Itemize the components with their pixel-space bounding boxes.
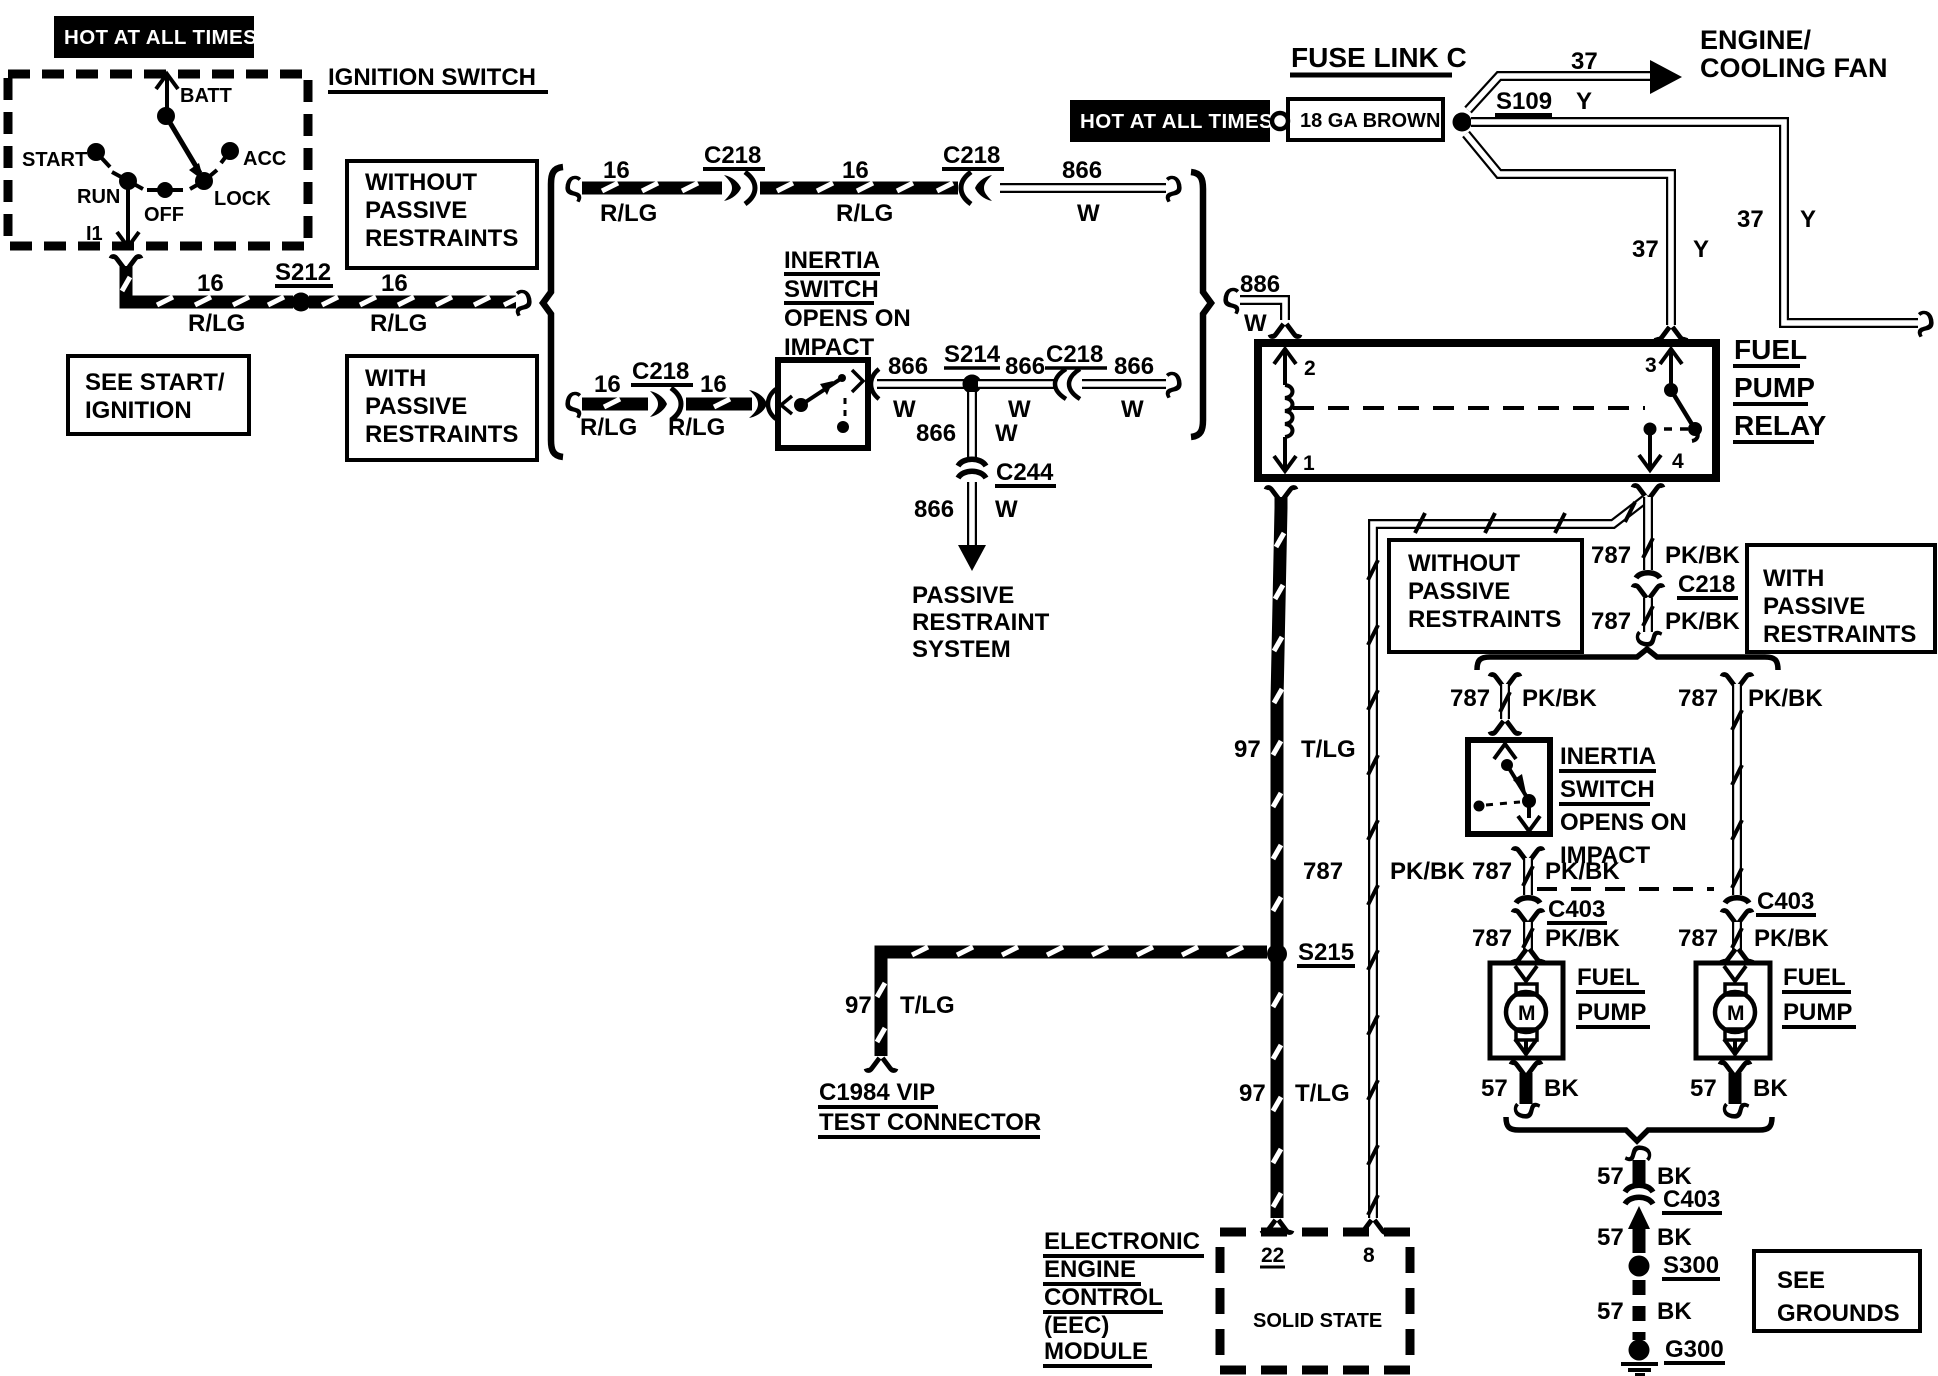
- svg-text:IGNITION: IGNITION: [85, 397, 192, 424]
- wire end hook at right edge: [1916, 297, 1935, 338]
- svg-text:S212: S212: [275, 259, 331, 286]
- fuel pump motor (right): [1715, 966, 1755, 1054]
- svg-text:R/LG: R/LG: [668, 414, 725, 441]
- svg-text:M: M: [1518, 1002, 1536, 1025]
- svg-text:RELAY: RELAY: [1734, 410, 1827, 441]
- svg-text:1: 1: [1303, 452, 1315, 475]
- wire 16 R/LG from S212 to brace: [309, 297, 520, 305]
- svg-text:4: 4: [1672, 450, 1684, 473]
- 18 GA BROWN fuse link box: [1288, 99, 1443, 140]
- wire 57 BK (left): [1520, 1073, 1533, 1104]
- svg-text:G300: G300: [1665, 1336, 1724, 1363]
- connector fork at C1984: [866, 1058, 896, 1071]
- svg-text:C218: C218: [1046, 341, 1103, 368]
- ground symbol: [1621, 1364, 1658, 1375]
- hook below left 57 wire: [1500, 1101, 1541, 1120]
- connector C218 (bottom 866): [1045, 341, 1107, 399]
- svg-text:Y: Y: [1576, 88, 1592, 115]
- fork below right pump: [1720, 1062, 1750, 1075]
- svg-text:BATT: BATT: [180, 85, 232, 107]
- svg-text:ENGINE/: ENGINE/: [1700, 25, 1812, 55]
- svg-text:16: 16: [842, 157, 869, 184]
- svg-text:PASSIVE: PASSIVE: [365, 197, 467, 224]
- svg-text:16: 16: [603, 157, 630, 184]
- svg-text:M: M: [1727, 1002, 1745, 1025]
- svg-text:PK/BK: PK/BK: [1748, 685, 1823, 712]
- svg-text:RESTRAINT: RESTRAINT: [912, 609, 1050, 636]
- inertia switch label (left): [784, 247, 911, 361]
- connector into inertia switch: [749, 389, 776, 419]
- EEC module dashed box: [1220, 1232, 1410, 1370]
- connector fork at ignition output: [111, 256, 141, 269]
- svg-text:BK: BK: [1544, 1075, 1579, 1102]
- without passive restraints note box (left): [347, 161, 537, 268]
- svg-text:RUN: RUN: [77, 186, 120, 208]
- svg-text:RESTRAINTS: RESTRAINTS: [365, 421, 518, 448]
- svg-text:PK/BK: PK/BK: [1390, 858, 1465, 885]
- wire 787 PK/BK from relay pin 4 to EEC pin 8: [1368, 497, 1648, 1218]
- svg-text:SOLID STATE: SOLID STATE: [1253, 1310, 1382, 1332]
- svg-text:IGNITION SWITCH: IGNITION SWITCH: [328, 64, 536, 91]
- relay pin 3 and switch: [1645, 349, 1702, 441]
- wire end hook (top 866): [1164, 162, 1183, 203]
- fork on bracket left: [1490, 674, 1520, 687]
- svg-text:866: 866: [916, 420, 956, 447]
- fuel pump box (right): [1696, 963, 1770, 1058]
- svg-text:PK/BK: PK/BK: [1545, 925, 1620, 952]
- svg-text:37: 37: [1632, 236, 1659, 263]
- inertia switch internals: [781, 370, 863, 433]
- relay pin 1: [1274, 437, 1315, 475]
- svg-text:37: 37: [1571, 48, 1598, 75]
- C1984 VIP test connector label: [818, 1079, 1041, 1137]
- svg-text:3: 3: [1645, 354, 1657, 377]
- ignition switch BATT terminal: [156, 74, 232, 125]
- svg-text:2: 2: [1304, 357, 1316, 380]
- svg-text:WITH: WITH: [1763, 565, 1824, 592]
- wire 787 PK/BK to right pump: [1732, 922, 1742, 950]
- svg-text:787: 787: [1678, 925, 1718, 952]
- svg-text:57: 57: [1597, 1298, 1624, 1325]
- ignition switch title: [328, 64, 548, 92]
- svg-text:C403: C403: [1757, 888, 1814, 915]
- wire end hook (bottom 866): [1164, 358, 1183, 399]
- fuel pump relay box: [1258, 343, 1716, 478]
- svg-text:37: 37: [1737, 206, 1764, 233]
- svg-text:866: 866: [914, 496, 954, 523]
- svg-text:PASSIVE: PASSIVE: [912, 582, 1014, 609]
- fuel pump relay label: [1733, 334, 1827, 442]
- ignition switch dashed box: [8, 74, 308, 246]
- svg-text:WITHOUT: WITHOUT: [365, 169, 477, 196]
- svg-text:FUEL: FUEL: [1734, 334, 1807, 365]
- svg-text:Y: Y: [1693, 236, 1709, 263]
- connector C403 (common): [1625, 1185, 1722, 1213]
- svg-text:SWITCH: SWITCH: [1560, 776, 1655, 803]
- svg-text:SYSTEM: SYSTEM: [912, 636, 1011, 663]
- svg-text:R/LG: R/LG: [600, 200, 657, 227]
- right brace joining branches: [1191, 172, 1211, 437]
- svg-text:BK: BK: [1753, 1075, 1788, 1102]
- svg-text:C218: C218: [704, 142, 761, 169]
- splice S214: [944, 341, 1001, 394]
- svg-text:787: 787: [1472, 925, 1512, 952]
- fork on bracket right: [1722, 674, 1752, 687]
- inertia switch box (right): [1468, 740, 1550, 834]
- svg-text:PK/BK: PK/BK: [1545, 858, 1620, 885]
- svg-text:866: 866: [1062, 157, 1102, 184]
- svg-text:97: 97: [1239, 1080, 1266, 1107]
- svg-text:22: 22: [1261, 1244, 1284, 1267]
- svg-text:16: 16: [197, 270, 224, 297]
- svg-text:PASSIVE: PASSIVE: [1763, 593, 1865, 620]
- wire 37 Y middle branch (to right edge): [1471, 122, 1918, 323]
- svg-text:W: W: [1121, 396, 1144, 423]
- wire 97 T/LG from relay pin 1 to EEC pin 22: [1273, 497, 1284, 1218]
- svg-text:SEE START/: SEE START/: [85, 369, 225, 396]
- svg-text:INERTIA: INERTIA: [1560, 743, 1656, 770]
- svg-text:787: 787: [1303, 858, 1343, 885]
- splice S212: [275, 259, 333, 312]
- see start/ignition note box: [68, 356, 249, 434]
- fuel pump box (left): [1490, 963, 1563, 1058]
- svg-text:START: START: [22, 149, 87, 171]
- svg-text:FUEL: FUEL: [1783, 964, 1846, 991]
- fuse link C label: [1290, 42, 1467, 75]
- wire end hook above bracket: [1622, 629, 1663, 648]
- with passive restraints note box (right): [1747, 545, 1935, 652]
- svg-text:TEST CONNECTOR: TEST CONNECTOR: [819, 1109, 1041, 1136]
- svg-text:T/LG: T/LG: [1295, 1080, 1350, 1107]
- svg-text:57: 57: [1690, 1075, 1717, 1102]
- svg-text:PK/BK: PK/BK: [1665, 608, 1740, 635]
- hot at all times label (left): [54, 16, 257, 58]
- svg-text:RESTRAINTS: RESTRAINTS: [365, 225, 518, 252]
- left brace splitting wire: [543, 167, 563, 457]
- fork below inertia switch: [1513, 848, 1543, 861]
- svg-text:OPENS ON: OPENS ON: [784, 305, 911, 332]
- svg-text:PUMP: PUMP: [1734, 372, 1815, 403]
- svg-text:866: 866: [888, 353, 928, 380]
- svg-text:8: 8: [1363, 1244, 1375, 1267]
- svg-text:W: W: [1244, 310, 1267, 337]
- svg-text:C403: C403: [1663, 1186, 1720, 1213]
- wire 866 W after C218: [1082, 379, 1166, 389]
- svg-text:CONTROL: CONTROL: [1044, 1284, 1163, 1311]
- EEC pin 22 label: [1260, 1244, 1285, 1267]
- svg-text:BK: BK: [1657, 1224, 1692, 1251]
- svg-text:866: 866: [1005, 353, 1045, 380]
- svg-text:SEE: SEE: [1777, 1267, 1825, 1294]
- arrow to passive restraint system: [958, 545, 986, 571]
- relay coil: [1285, 385, 1293, 437]
- hot at all times label (right): [1070, 100, 1273, 142]
- svg-text:C403: C403: [1548, 896, 1605, 923]
- wire 886 W to relay pin 2: [1222, 274, 1285, 320]
- hook below right 57 wire: [1709, 1101, 1750, 1120]
- svg-text:16: 16: [700, 371, 727, 398]
- fuel pump label (left): [1576, 964, 1650, 1027]
- svg-text:PASSIVE: PASSIVE: [1408, 578, 1510, 605]
- joining bracket below pumps: [1506, 1117, 1772, 1141]
- wire 866 W to S214: [877, 379, 966, 389]
- svg-text:MODULE: MODULE: [1044, 1338, 1148, 1365]
- inertia switch label (right): [1559, 743, 1687, 869]
- svg-text:W: W: [893, 396, 916, 423]
- inertia switch box: [778, 360, 868, 448]
- svg-text:PK/BK: PK/BK: [1754, 925, 1829, 952]
- svg-text:PUMP: PUMP: [1783, 999, 1852, 1026]
- dashed link between branches: [1537, 887, 1714, 891]
- connector fork at relay pin 3: [1656, 327, 1686, 340]
- wire 16 R/LG after C218: [760, 183, 958, 191]
- connector fork at relay pin 2: [1270, 324, 1300, 337]
- wire 37 Y to engine/cooling fan (arrow): [1468, 60, 1682, 110]
- svg-text:RESTRAINTS: RESTRAINTS: [1763, 621, 1916, 648]
- connector C218: [1633, 571, 1738, 598]
- connector fork at EEC pin 8: [1358, 1220, 1388, 1233]
- wire 787 PK/BK to left pump: [1523, 922, 1533, 950]
- ignition switch ACC terminal: [221, 142, 286, 170]
- splice S109 label: [1495, 88, 1552, 115]
- inertia switch internals (right): [1474, 744, 1541, 831]
- connector C218 (to 866 W): [942, 142, 1004, 204]
- svg-text:787: 787: [1450, 685, 1490, 712]
- top branch wire 16 R/LG: [564, 162, 722, 203]
- svg-text:787: 787: [1472, 858, 1512, 885]
- wire 57 BK common: [1633, 1160, 1646, 1188]
- svg-text:C1984 VIP: C1984 VIP: [819, 1079, 935, 1106]
- svg-text:W: W: [1008, 396, 1031, 423]
- svg-text:(EEC): (EEC): [1044, 1312, 1109, 1339]
- wire 57 BK (right): [1729, 1073, 1742, 1104]
- wire 787 PK/BK to inertia switch: [1500, 684, 1510, 719]
- relay pin 4 contact: [1639, 423, 1688, 474]
- wire 16 R/LG to inertia switch: [686, 399, 752, 407]
- without passive restraints note box (right): [1389, 540, 1582, 652]
- electronic engine control module label: [1043, 1228, 1204, 1366]
- svg-text:16: 16: [594, 371, 621, 398]
- svg-text:RESTRAINTS: RESTRAINTS: [1408, 606, 1561, 633]
- svg-text:ELECTRONIC: ELECTRONIC: [1044, 1228, 1200, 1255]
- wire 866 W (top): [1000, 183, 1166, 193]
- splice S109 dot: [1453, 113, 1472, 132]
- svg-text:W: W: [1077, 200, 1100, 227]
- svg-text:R/LG: R/LG: [580, 414, 637, 441]
- wire 787 PK/BK below C218: [1643, 598, 1653, 632]
- ignition switch OFF terminal: [144, 182, 184, 226]
- connector out of inertia switch: [871, 369, 879, 399]
- svg-text:T/LG: T/LG: [1301, 736, 1356, 763]
- svg-text:S300: S300: [1663, 1252, 1719, 1279]
- svg-text:OFF: OFF: [144, 204, 184, 226]
- svg-text:COOLING FAN: COOLING FAN: [1700, 53, 1888, 83]
- svg-text:R/LG: R/LG: [370, 310, 427, 337]
- svg-text:57: 57: [1481, 1075, 1508, 1102]
- svg-text:I1: I1: [86, 223, 103, 245]
- svg-text:PK/BK: PK/BK: [1522, 685, 1597, 712]
- fork below left pump: [1511, 1062, 1541, 1075]
- connector C218 (top branch): [703, 142, 765, 204]
- wire 866 W from S214 to C218: [978, 379, 1056, 389]
- see grounds note box: [1754, 1251, 1920, 1331]
- svg-text:HOT AT ALL TIMES: HOT AT ALL TIMES: [1080, 110, 1273, 133]
- svg-text:C218: C218: [632, 358, 689, 385]
- connector fork at EEC pin 22: [1262, 1220, 1292, 1233]
- svg-text:ACC: ACC: [243, 148, 286, 170]
- svg-text:T/LG: T/LG: [900, 992, 955, 1019]
- wire 16 R/LG from ignition switch: [122, 266, 293, 305]
- svg-text:S109: S109: [1496, 88, 1552, 115]
- splitting bracket below pin 4: [1477, 649, 1778, 670]
- connector fork at relay pin 4: [1633, 485, 1663, 498]
- connector fork at relay pin 1: [1266, 487, 1296, 500]
- wire 787 PK/BK from relay pin 4 down: [1643, 497, 1653, 570]
- svg-text:OPENS ON: OPENS ON: [1560, 809, 1687, 836]
- svg-text:S215: S215: [1298, 939, 1354, 966]
- svg-text:WITH: WITH: [365, 365, 426, 392]
- svg-text:R/LG: R/LG: [836, 200, 893, 227]
- svg-text:PK/BK: PK/BK: [1665, 542, 1740, 569]
- wire 787 PK/BK right branch: [1732, 684, 1742, 895]
- fuel pump motor (left): [1506, 966, 1546, 1054]
- svg-text:R/LG: R/LG: [188, 310, 245, 337]
- svg-text:HOT AT ALL TIMES: HOT AT ALL TIMES: [64, 26, 257, 49]
- svg-text:FUEL: FUEL: [1577, 964, 1640, 991]
- svg-text:PUMP: PUMP: [1577, 999, 1646, 1026]
- wire 57 BK with arrow to S300: [1628, 1206, 1650, 1253]
- relay pin 2: [1274, 349, 1316, 385]
- svg-text:16: 16: [381, 270, 408, 297]
- svg-text:IMPACT: IMPACT: [784, 334, 875, 361]
- svg-text:S214: S214: [944, 341, 1001, 368]
- wire 97 T/LG to C1984 test connector: [877, 947, 1267, 1056]
- with passive restraints note box (left): [347, 356, 537, 460]
- ignition switch LOCK terminal: [190, 170, 271, 210]
- svg-text:866: 866: [1114, 353, 1154, 380]
- wire 37 Y to fuel pump relay pin 3: [1466, 134, 1671, 325]
- relay actuating dashed line: [1293, 406, 1645, 410]
- svg-text:WITHOUT: WITHOUT: [1408, 550, 1520, 577]
- svg-text:97: 97: [1234, 736, 1261, 763]
- wire 787 PK/BK below inertia switch: [1523, 858, 1533, 895]
- ignition switch output I1: [86, 185, 139, 247]
- svg-text:GROUNDS: GROUNDS: [1777, 1300, 1900, 1327]
- ground G300: [1629, 1336, 1726, 1363]
- connector C403 (left pump): [1513, 896, 1607, 923]
- svg-text:C218: C218: [1678, 571, 1735, 598]
- svg-text:57: 57: [1597, 1224, 1624, 1251]
- wire 866 W down from S214: [967, 392, 977, 459]
- fuel pump label (right): [1782, 964, 1856, 1027]
- passive restraint system label: [912, 582, 1050, 663]
- splice S300: [1629, 1252, 1721, 1279]
- ignition switch RUN terminal: [77, 172, 143, 208]
- hook below bracket: [1624, 1144, 1665, 1163]
- svg-text:INERTIA: INERTIA: [784, 247, 880, 274]
- wire end hook at brace: [514, 276, 533, 317]
- svg-text:97: 97: [845, 992, 872, 1019]
- svg-text:C218: C218: [943, 142, 1000, 169]
- wire 866 W to passive restraint system: [967, 482, 977, 545]
- bottom branch wire 16 R/LG: [564, 378, 648, 419]
- wire 57 BK dashed to ground: [1633, 1280, 1646, 1340]
- svg-text:18 GA BROWN: 18 GA BROWN: [1300, 110, 1440, 132]
- svg-text:W: W: [995, 420, 1018, 447]
- fuse link terminal circle: [1272, 113, 1288, 129]
- svg-text:W: W: [995, 496, 1018, 523]
- connector fork at inertia switch: [1490, 721, 1520, 734]
- svg-text:ENGINE: ENGINE: [1044, 1256, 1136, 1283]
- engine/cooling fan label: [1700, 25, 1888, 83]
- svg-text:Y: Y: [1800, 206, 1816, 233]
- svg-text:PASSIVE: PASSIVE: [365, 393, 467, 420]
- ignition switch START terminal: [22, 143, 110, 171]
- connector C244: [958, 459, 1056, 486]
- fork at right pump: [1722, 949, 1752, 962]
- svg-text:LOCK: LOCK: [214, 188, 271, 210]
- svg-text:787: 787: [1591, 542, 1631, 569]
- svg-text:787: 787: [1678, 685, 1718, 712]
- svg-text:BK: BK: [1657, 1298, 1692, 1325]
- ignition switch rotor arm: [166, 116, 204, 181]
- svg-text:886: 886: [1240, 271, 1280, 298]
- svg-text:57: 57: [1597, 1163, 1624, 1190]
- svg-text:C244: C244: [996, 459, 1054, 486]
- connector C403 (right pump): [1722, 888, 1816, 923]
- splice S215: [1267, 939, 1355, 966]
- connector C218 (bottom branch): [631, 358, 693, 420]
- fork at left pump: [1513, 949, 1543, 962]
- svg-text:FUSE LINK C: FUSE LINK C: [1291, 42, 1467, 73]
- svg-text:SWITCH: SWITCH: [784, 276, 879, 303]
